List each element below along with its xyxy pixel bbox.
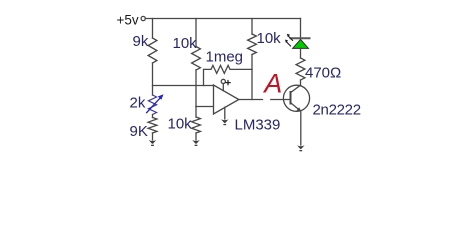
resistor R8 470ohm bbox=[296, 58, 305, 80]
svg-text:9k: 9k bbox=[133, 33, 149, 50]
wire column4 rail to LED bbox=[300, 19, 302, 40]
wire column1 middle bbox=[152, 63, 154, 95]
transistor Q1 circle bbox=[283, 85, 309, 111]
wire column1 top bbox=[152, 19, 154, 39]
wire column2 lower bbox=[195, 107, 197, 118]
ground G1 bbox=[149, 140, 157, 146]
resistor R5 10k lower bbox=[192, 117, 201, 133]
wire op-amp output to node A bbox=[239, 99, 263, 101]
svg-text:A: A bbox=[262, 69, 282, 99]
ground G3 op-amp bbox=[221, 119, 229, 125]
ground G2 bbox=[192, 140, 200, 146]
transistor Q1 collector lead bbox=[291, 85, 301, 92]
svg-text:+5v: +5v bbox=[117, 13, 139, 28]
LED emission arrow 2 bbox=[285, 40, 291, 47]
LED emission arrow 1 bbox=[287, 34, 293, 41]
svg-text:2k: 2k bbox=[130, 95, 146, 112]
wire emitter to ground bbox=[300, 112, 302, 145]
wire node to op-amp inverting input bbox=[196, 106, 214, 108]
wire between 2k and 9K bbox=[152, 115, 154, 118]
wire column3 to output node bbox=[251, 55, 253, 100]
transistor Q1 base bar bbox=[290, 92, 292, 104]
svg-text:10k: 10k bbox=[168, 116, 193, 133]
wire LED to 470 resistor bbox=[300, 48, 302, 58]
wire column2 middle crossing bbox=[195, 70, 197, 107]
resistor R6 1meg feedback bbox=[204, 65, 253, 85]
op-amp U1 LM339 triangle bbox=[214, 85, 239, 114]
wire 470 to collector bbox=[300, 80, 302, 85]
ground G4 transistor bbox=[297, 145, 305, 151]
svg-text:2n2222: 2n2222 bbox=[313, 102, 361, 119]
wire column3 top bbox=[251, 19, 253, 35]
wire node A to transistor base bbox=[271, 99, 291, 101]
wire top rail +5v bbox=[145, 18, 300, 20]
transistor Q1 emitter lead bbox=[291, 103, 300, 111]
resistor R7 10k pullup bbox=[248, 34, 257, 55]
svg-text:10k: 10k bbox=[257, 30, 282, 47]
op-amp V+ pin circle bbox=[221, 79, 225, 83]
wire column1 to ground bbox=[152, 133, 154, 140]
LED D1 cathode bar bbox=[291, 37, 310, 39]
wire column2 to ground bbox=[195, 133, 197, 140]
resistor R3 9K bbox=[148, 118, 157, 134]
op-amp plus sign bbox=[226, 81, 230, 85]
svg-text:470Ω: 470Ω bbox=[305, 65, 341, 82]
svg-text:9K: 9K bbox=[130, 123, 148, 140]
svg-text:1meg: 1meg bbox=[206, 48, 244, 65]
+5v supply terminal circle bbox=[141, 16, 145, 20]
resistor R1 9k bbox=[148, 38, 157, 63]
wire column2 top bbox=[195, 19, 197, 47]
LED D1 green triangle bbox=[293, 39, 309, 48]
resistor R4 10k upper bbox=[192, 47, 201, 71]
resistor R2 2k variable (blue) bbox=[148, 95, 156, 115]
op-amp ground stub bbox=[224, 107, 226, 119]
svg-text:LM339: LM339 bbox=[235, 117, 281, 134]
wire node to op-amp noninverting input bbox=[153, 85, 214, 87]
svg-text:10k: 10k bbox=[173, 35, 198, 52]
